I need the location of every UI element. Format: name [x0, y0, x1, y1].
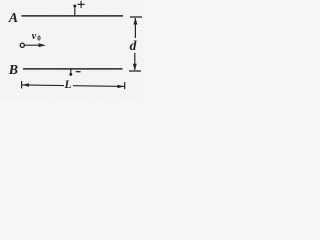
- label L: [64, 79, 72, 91]
- velocity arrow v0: [25, 43, 46, 47]
- plate B: [23, 68, 123, 70]
- dimension d lower arrow: [133, 53, 137, 71]
- label A: [8, 11, 18, 26]
- dimension L left tick: [21, 81, 23, 88]
- minus sign: [76, 71, 81, 73]
- dimension L line right segment with arrowhead: [73, 85, 124, 89]
- svg-text:v: v: [32, 31, 37, 42]
- negative terminal tick below plate B: [69, 69, 72, 76]
- dimension d bottom tick: [129, 70, 141, 72]
- positive terminal tick on plate A: [73, 5, 76, 16]
- svg-text:L: L: [64, 79, 72, 91]
- svg-text:B: B: [8, 63, 18, 78]
- svg-text:A: A: [8, 11, 18, 26]
- dimension d top tick: [130, 16, 142, 18]
- label B: [8, 63, 18, 78]
- label v0: [32, 31, 42, 42]
- dimension L right tick: [124, 82, 126, 89]
- svg-text:0: 0: [37, 35, 41, 43]
- plus sign: [78, 1, 85, 8]
- plate A: [22, 15, 124, 17]
- svg-text:d: d: [130, 38, 137, 53]
- label d: [130, 38, 137, 53]
- dimension d upper arrow: [133, 18, 137, 38]
- dimension L line left segment with arrowhead: [22, 83, 64, 87]
- charged particle: [20, 43, 24, 47]
